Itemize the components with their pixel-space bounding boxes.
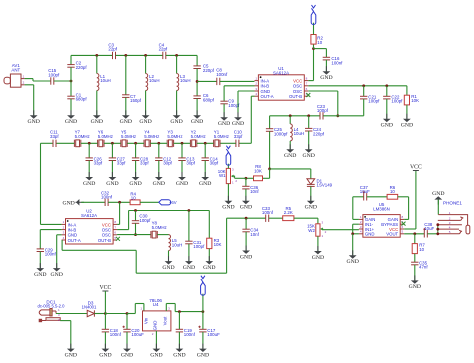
wire rail corner down bbox=[196, 55, 198, 66]
wire to C27 bbox=[111, 143, 113, 158]
wire to C34 bbox=[245, 218, 247, 229]
wire C9 to ground bbox=[223, 104, 225, 117]
wire gnd to C32 bbox=[81, 201, 105, 203]
svg-text:220pf: 220pf bbox=[203, 68, 215, 73]
ground DC1 bbox=[70, 344, 72, 350]
wire node to W1 wiper bbox=[235, 177, 246, 179]
ground C35 bbox=[414, 275, 416, 281]
wire R5 to W2 bbox=[294, 217, 318, 219]
svg-text:GND: GND bbox=[65, 119, 77, 125]
capacitor C29 bbox=[37, 249, 44, 252]
power flag VCC (top) bbox=[311, 5, 316, 25]
wire down to R3 bbox=[208, 211, 210, 239]
ground C19 bbox=[178, 344, 180, 350]
wire top rail mid bbox=[116, 54, 163, 56]
ground C12 bbox=[158, 172, 160, 178]
node U2 VCC bbox=[118, 201, 121, 204]
wire down to +6V rail bbox=[174, 304, 176, 312]
ground L2 bbox=[145, 110, 147, 116]
wire C8 to U1 IN-A bbox=[220, 80, 255, 82]
ground AV1 bbox=[33, 110, 35, 116]
wire to L4 bbox=[289, 116, 291, 124]
capacitor C12 bbox=[155, 158, 162, 161]
wire bbox=[325, 49, 327, 58]
svg-text:GND: GND bbox=[152, 321, 157, 331]
wire bbox=[32, 79, 34, 81]
svg-text:5.0MHz: 5.0MHz bbox=[152, 225, 167, 230]
ground D1 bbox=[310, 196, 312, 202]
wire C21 bottom bbox=[363, 99, 365, 116]
wire R3 to ground bbox=[208, 249, 210, 262]
svg-text:100nf: 100nf bbox=[184, 332, 196, 337]
wire U5 GND pin bbox=[353, 233, 359, 235]
svg-text:1000pf: 1000pf bbox=[274, 131, 288, 136]
svg-text:30pf: 30pf bbox=[163, 161, 172, 166]
wire filter row bbox=[104, 142, 121, 144]
svg-text:10: 10 bbox=[419, 247, 424, 252]
wire C20 to ground bbox=[126, 332, 128, 349]
capacitor C7 bbox=[122, 95, 129, 98]
ground C13 bbox=[181, 172, 183, 178]
wire audio 3 bbox=[136, 272, 226, 274]
wire R7 to C35 bbox=[414, 254, 416, 263]
node Y8 bbox=[134, 233, 137, 236]
ground C32 (left) bbox=[76, 201, 85, 203]
svg-text:GND: GND bbox=[129, 181, 141, 187]
wire R8 to node bbox=[246, 177, 254, 179]
node L2 top bbox=[144, 54, 147, 57]
svg-text:GND: GND bbox=[162, 265, 174, 271]
svg-text:10uH: 10uH bbox=[294, 131, 305, 136]
svg-text:1SV149: 1SV149 bbox=[317, 183, 333, 188]
capacitor C5 bbox=[193, 66, 200, 69]
svg-text:W1: W1 bbox=[219, 173, 226, 178]
wire U2 OSC pin7 bbox=[117, 229, 129, 231]
wire VCC riser U5 bbox=[415, 171, 417, 230]
svg-text:GND: GND bbox=[197, 352, 209, 358]
node C13 top bbox=[181, 142, 184, 145]
capacitor C21 bbox=[360, 96, 367, 99]
wire up bbox=[134, 304, 136, 314]
wire W2 top bbox=[317, 218, 319, 224]
svg-text:GND: GND bbox=[99, 352, 111, 358]
node L3 top bbox=[175, 54, 178, 57]
wire C27 to ground bbox=[111, 161, 113, 178]
node C20 top bbox=[134, 209, 137, 212]
svg-text:GND: GND bbox=[91, 119, 103, 125]
capacitor C20 filter bbox=[123, 326, 131, 332]
wire U5 GAIN left bbox=[353, 218, 359, 220]
junction PHONE1 pin4 bbox=[436, 232, 439, 235]
svg-text:GND: GND bbox=[183, 265, 195, 271]
wire U5 VOUT bbox=[404, 233, 424, 235]
ground R3 bbox=[208, 256, 210, 262]
ground C20 bbox=[126, 344, 128, 350]
capacitor C9 bbox=[220, 101, 227, 104]
wire to ground bbox=[237, 91, 239, 117]
potentiometer W1 10K bbox=[226, 168, 230, 183]
node C19 bbox=[178, 310, 181, 313]
ground U4 bbox=[155, 344, 157, 350]
node C5/C6/C8 bbox=[196, 80, 199, 83]
svg-text:VCC: VCC bbox=[99, 285, 111, 291]
wire W2 to ground bbox=[317, 236, 319, 251]
node C20 filter bbox=[126, 312, 129, 315]
wire up bbox=[128, 211, 130, 230]
ground L1 bbox=[96, 110, 98, 116]
wire C38 to jack bbox=[428, 233, 438, 235]
wire to C28 bbox=[135, 143, 137, 158]
svg-text:GND: GND bbox=[199, 181, 211, 187]
svg-text:680pf: 680pf bbox=[76, 97, 88, 102]
svg-text:GND: GND bbox=[51, 272, 63, 278]
ground W2 bbox=[317, 246, 319, 252]
wire to L2 bbox=[145, 55, 147, 73]
crystal Y1 5.0MHz bbox=[214, 140, 220, 147]
wire OSC pin6 bbox=[308, 90, 338, 92]
svg-text:GND: GND bbox=[312, 255, 324, 261]
wire L4 to ground bbox=[289, 141, 291, 149]
svg-text:33pf: 33pf bbox=[94, 161, 103, 166]
op-amp U5 LM386N audio amp bbox=[363, 215, 400, 238]
power flag +6V (R4) bbox=[159, 200, 171, 205]
svg-text:OUT-B: OUT-B bbox=[98, 238, 111, 243]
svg-text:100pf: 100pf bbox=[391, 99, 403, 104]
svg-text:10uH: 10uH bbox=[149, 78, 160, 83]
wire C33 to R5 bbox=[269, 217, 283, 219]
node C24 top bbox=[307, 114, 310, 117]
svg-text:GND: GND bbox=[203, 265, 215, 271]
svg-text:LM386N: LM386N bbox=[373, 206, 390, 211]
svg-text:100pf: 100pf bbox=[368, 99, 380, 104]
diode D3 1N4001 bbox=[87, 310, 94, 316]
U2 pin stubs bbox=[62, 224, 118, 240]
svg-text:5.0MHz: 5.0MHz bbox=[75, 134, 90, 139]
svg-text:VCC: VCC bbox=[410, 165, 422, 171]
wire to C37 bbox=[353, 196, 364, 198]
ground C36 bbox=[245, 196, 247, 202]
wire Vin pin down bbox=[143, 304, 145, 311]
svg-text:10uH: 10uH bbox=[172, 242, 183, 247]
ground C27 bbox=[111, 172, 113, 178]
wire to C19 bbox=[178, 312, 180, 330]
svg-text:5.0MHz: 5.0MHz bbox=[191, 134, 206, 139]
ground C28 bbox=[135, 172, 137, 178]
svg-text:SA612A: SA612A bbox=[273, 70, 289, 75]
crystal Y5 5.0MHz bbox=[121, 140, 127, 147]
svg-text:GND: GND bbox=[381, 123, 393, 129]
ground L4 bbox=[289, 144, 291, 150]
wire to U2 VCC pin bbox=[117, 223, 120, 225]
svg-text:GND: GND bbox=[284, 153, 296, 159]
capacitor C19 bbox=[176, 329, 183, 332]
capacitor C3 bbox=[113, 52, 116, 59]
wire R2 to VCC flag bbox=[313, 23, 315, 35]
svg-text:10K: 10K bbox=[214, 242, 222, 247]
svg-text:GND: GND bbox=[121, 352, 133, 358]
svg-text:VOUT: VOUT bbox=[386, 232, 398, 237]
capacitor C1 bbox=[67, 96, 74, 99]
crystal Y2 5.0MHz bbox=[190, 140, 196, 147]
wire audio 2 bbox=[135, 250, 137, 273]
svg-text:100pf: 100pf bbox=[139, 218, 151, 223]
wire L1 to ground bbox=[96, 91, 98, 116]
wire C34 to ground bbox=[245, 232, 247, 251]
svg-text:GND: GND bbox=[240, 205, 252, 211]
svg-text:100nf: 100nf bbox=[101, 195, 113, 200]
wire tank row right bbox=[323, 115, 364, 117]
svg-text:GND: GND bbox=[62, 200, 74, 206]
capacitor C15 bbox=[51, 77, 54, 84]
svg-text:GND: GND bbox=[401, 123, 413, 129]
wire C7 to ground bbox=[125, 97, 127, 115]
capacitor C33 bbox=[266, 215, 269, 222]
wire U4 GND bbox=[155, 331, 157, 349]
capacitor C11 bbox=[53, 140, 56, 147]
wire to C20 filter bbox=[126, 314, 128, 330]
wire C15 to node bbox=[54, 80, 71, 82]
wire U1 GND pin bbox=[238, 90, 255, 92]
wire D3 to VCC node bbox=[94, 313, 105, 315]
ground C17 bbox=[202, 344, 204, 350]
wire to ground bbox=[56, 235, 58, 268]
wire C32 to R4 bbox=[108, 201, 130, 203]
wire osc top bbox=[129, 210, 210, 212]
wire to C22 bbox=[386, 86, 388, 97]
wire filter out down bbox=[40, 143, 42, 224]
wire jack ground bbox=[437, 200, 439, 215]
wire node down bbox=[269, 169, 271, 178]
wire audio 4 bbox=[226, 218, 228, 273]
wire to C18 bbox=[104, 314, 106, 330]
capacitor C22 bbox=[383, 96, 390, 99]
wire to C24 bbox=[308, 116, 310, 129]
svg-text:GND: GND bbox=[303, 153, 315, 159]
svg-text:100nf: 100nf bbox=[110, 332, 122, 337]
ground C6 bbox=[196, 110, 198, 116]
inductor L4 bbox=[290, 124, 292, 141]
node C21 bbox=[362, 84, 365, 87]
node C12 top bbox=[157, 142, 160, 145]
ground U2 bbox=[56, 263, 58, 269]
ground C7 bbox=[125, 110, 127, 116]
wire W1 to VCC flag bbox=[227, 164, 229, 169]
capacitor C23 bbox=[320, 112, 323, 119]
svg-text:10: 10 bbox=[131, 196, 136, 201]
wire C35 to ground bbox=[414, 265, 416, 281]
antenna connector AV1 bbox=[4, 74, 25, 87]
wire filter row bbox=[174, 142, 191, 144]
svg-text:GND: GND bbox=[120, 119, 132, 125]
ground C9 bbox=[223, 112, 225, 118]
wire OUT-A down bbox=[61, 240, 63, 250]
junction PHONE1 pin2 bbox=[436, 223, 439, 226]
capacitor C37 bbox=[363, 191, 367, 200]
svg-text:GND: GND bbox=[191, 119, 203, 125]
node VOUT bbox=[413, 232, 416, 235]
svg-text:ANT: ANT bbox=[11, 67, 20, 72]
node C22 bbox=[385, 84, 388, 87]
wire +6V riser bbox=[202, 294, 204, 312]
wire C6 to ground bbox=[196, 99, 198, 116]
wire C5 to C6 bbox=[196, 69, 198, 96]
wire DC1 sleeve bbox=[60, 320, 71, 322]
wire loop left bbox=[352, 197, 354, 220]
wire to C21 bbox=[363, 86, 365, 97]
U1 pin stubs bbox=[255, 81, 309, 97]
svg-text:+6V: +6V bbox=[169, 200, 177, 205]
svg-text:10: 10 bbox=[317, 40, 322, 45]
connector PHONE1 headphone jack bbox=[438, 215, 470, 234]
wire node to C8 bbox=[197, 80, 217, 82]
wire VCC port down bbox=[104, 291, 106, 314]
wire tank row left bbox=[270, 115, 320, 117]
ground C29 bbox=[39, 263, 41, 269]
wire R1 to ground bbox=[406, 105, 408, 119]
svg-text:2.2K: 2.2K bbox=[284, 210, 293, 215]
wire U1 OUT-A bbox=[251, 95, 254, 97]
node antenna/C2/C1 bbox=[70, 80, 73, 83]
svg-text:GND: GND bbox=[34, 272, 46, 278]
ground PHONE1 (up) bbox=[437, 199, 439, 205]
wire AV1 pin2 bbox=[25, 84, 34, 86]
wire to R8 bbox=[263, 177, 270, 179]
node C27 top bbox=[111, 142, 114, 145]
ground C16 bbox=[325, 66, 327, 72]
wire U2 IN-B bbox=[40, 229, 61, 231]
svg-text:GND: GND bbox=[139, 119, 151, 125]
wire to D1 bbox=[270, 168, 311, 170]
capacitor C35 bbox=[411, 262, 418, 265]
svg-text:U4: U4 bbox=[153, 302, 159, 307]
wire sleeve to ground bbox=[70, 321, 72, 349]
wire to C17 bbox=[202, 312, 204, 330]
resistor R4 bbox=[130, 200, 140, 205]
wire to C20 bbox=[135, 211, 137, 221]
wire to U5 GAIN right bbox=[404, 218, 408, 220]
resistor R3 bbox=[207, 238, 212, 248]
wire VCC riser bbox=[313, 49, 315, 81]
wire Y8 to L5 bbox=[157, 234, 168, 236]
wire OUT-A down bbox=[250, 96, 252, 143]
wire antenna to C15 bbox=[33, 80, 51, 82]
svg-text:22pf: 22pf bbox=[108, 47, 117, 52]
wire C10 to Y1 bbox=[220, 142, 236, 144]
svg-text:GND: GND bbox=[170, 119, 182, 125]
wire to C7 bbox=[125, 55, 127, 94]
resistor R6 bbox=[387, 194, 398, 199]
wire C13 to ground bbox=[181, 161, 183, 178]
capacitor C16 bbox=[323, 57, 330, 60]
svg-text:Vout: Vout bbox=[162, 316, 167, 326]
inductor L3 bbox=[177, 74, 179, 91]
capacitor C8 bbox=[217, 78, 220, 85]
wire filter row bbox=[81, 142, 98, 144]
svg-text:GND: GND bbox=[218, 121, 230, 127]
node C28 top bbox=[134, 142, 137, 145]
wire filter row bbox=[150, 142, 167, 144]
ground W1 bbox=[227, 196, 229, 202]
potentiometer W2 15K bbox=[316, 224, 320, 236]
svg-text:100uF: 100uF bbox=[207, 332, 220, 337]
wire C17 to ground bbox=[202, 332, 204, 349]
wire AV1 pin1 jog bbox=[25, 78, 33, 80]
wire U2 OSC pin6 bbox=[117, 234, 151, 236]
wire C20 bottom bbox=[135, 223, 137, 234]
wire to C25 bbox=[269, 116, 271, 129]
wire R6 right bbox=[398, 196, 409, 198]
wire to C20 node bbox=[105, 313, 127, 315]
wire U1 IN-B bbox=[224, 85, 254, 87]
node C26 top bbox=[88, 142, 91, 145]
connector DC1 dc-005 barrel jack bbox=[39, 309, 60, 322]
wire OSC rail bbox=[308, 85, 407, 87]
svg-text:10K: 10K bbox=[411, 98, 419, 103]
svg-text:GND: GND bbox=[150, 352, 162, 358]
ground L5 bbox=[168, 256, 170, 262]
capacitor C27 bbox=[109, 158, 116, 161]
capacitor C38 bbox=[423, 228, 427, 237]
wire pin6 down bbox=[337, 91, 339, 116]
wire to C26 bbox=[88, 143, 90, 158]
svg-text:30pf: 30pf bbox=[210, 161, 219, 166]
power flag VCC (W1) bbox=[226, 146, 231, 166]
crystal Y6 5.0MHz bbox=[98, 140, 104, 147]
crystal Y7 5.0MHz bbox=[74, 140, 80, 147]
svg-text:GND: GND bbox=[222, 205, 234, 211]
wire top rail left bbox=[71, 54, 113, 56]
node R8/C36/W1 bbox=[245, 177, 248, 180]
node C17/+6V bbox=[202, 310, 205, 313]
ground C14 bbox=[204, 172, 206, 178]
svg-text:GND: GND bbox=[65, 352, 77, 358]
svg-text:SA612A: SA612A bbox=[81, 213, 97, 218]
resistor R1 bbox=[404, 95, 409, 105]
svg-text:10uH: 10uH bbox=[180, 78, 191, 83]
wire PHONE1 common bbox=[437, 225, 439, 234]
svg-text:680pf: 680pf bbox=[203, 98, 215, 103]
wire R4 to +6V bbox=[140, 201, 159, 203]
capacitor C4 bbox=[163, 52, 166, 59]
capacitor C10 bbox=[236, 140, 239, 147]
svg-text:GND: GND bbox=[83, 181, 95, 187]
wire C24 to ground bbox=[308, 131, 310, 149]
svg-text:100pf: 100pf bbox=[48, 72, 60, 77]
resistor R7 bbox=[412, 244, 417, 254]
wire U5 VCC pin bbox=[404, 228, 416, 230]
svg-text:PHONE1: PHONE1 bbox=[443, 200, 462, 205]
regulator U4 78L06 bbox=[143, 311, 171, 331]
wire C12 to ground bbox=[158, 161, 160, 178]
svg-text:220pf: 220pf bbox=[76, 65, 88, 70]
ground C26 bbox=[88, 172, 90, 178]
wire C1 to ground bbox=[70, 99, 72, 116]
svg-text:5.0MHz: 5.0MHz bbox=[98, 134, 113, 139]
wire to L3 bbox=[176, 55, 178, 73]
svg-text:GND: GND bbox=[320, 75, 332, 81]
svg-text:150pf: 150pf bbox=[130, 98, 142, 103]
svg-text:GND: GND bbox=[409, 284, 421, 290]
wire L3 to ground bbox=[176, 91, 178, 116]
wire to C16 bbox=[314, 48, 327, 50]
wire to C10 bbox=[239, 142, 251, 144]
wire to L1 bbox=[96, 55, 98, 73]
wire to U4 Vin bbox=[127, 313, 135, 315]
node C34 bbox=[245, 217, 248, 220]
no-connect U1 OUT-B bbox=[306, 93, 310, 97]
svg-text:5.0MHz: 5.0MHz bbox=[214, 134, 229, 139]
no-connect U5 BYPASS bbox=[402, 222, 406, 226]
